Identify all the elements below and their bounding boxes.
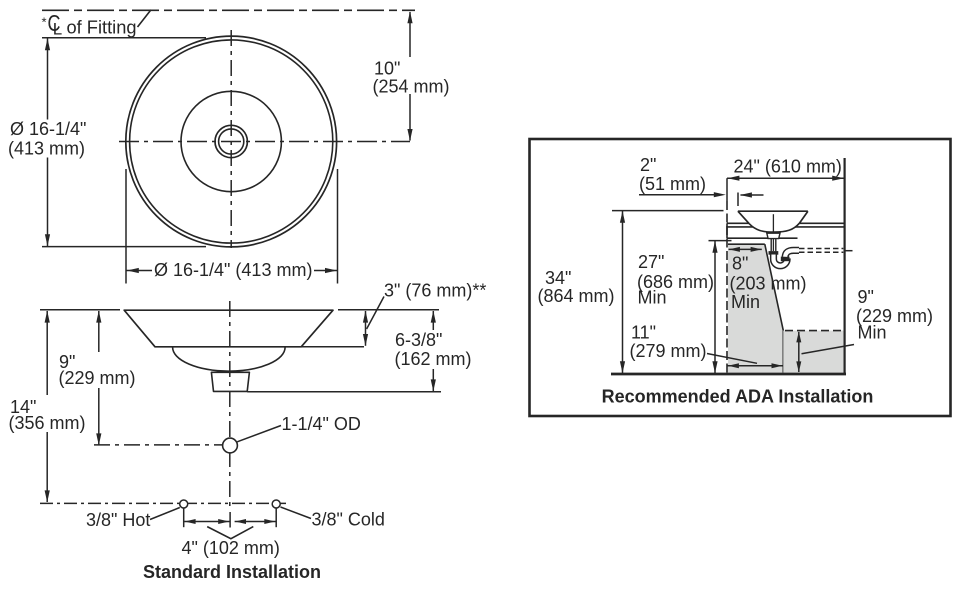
svg-text:(356 mm): (356 mm) [9,413,86,433]
horizontal centerline of top view (dash-dot) [119,141,410,143]
dimension 24" horizontal [727,176,845,181]
label CL of Fitting [42,10,137,38]
centerline of fitting (horizontal dash-dot, top) [42,9,415,11]
extension line rim top to right dims [338,309,439,311]
extension line below circle right (bottom dia dim) [337,169,339,284]
drain fitting trapezoid (ADA) [767,233,780,238]
ADA sink centerline [772,214,774,251]
2" leader underline with arrow [639,192,726,197]
svg-text:(51 mm): (51 mm) [639,174,706,194]
dimension 34" vertical [620,211,625,373]
label 6-3/8" (162 mm) [395,330,472,369]
counter underside line [727,237,798,239]
counter top line 1 [727,222,845,224]
svg-text:of Fitting: of Fitting [67,18,137,38]
horizontal dash-dot supply line row [40,502,286,504]
tailpiece pipe left edge [770,239,772,252]
leader 3/8 Cold [281,507,312,519]
svg-text:(864 mm): (864 mm) [538,286,615,306]
svg-text:3/8" Hot: 3/8" Hot [86,510,150,530]
svg-text:Standard Installation: Standard Installation [143,562,321,582]
svg-text:Min: Min [638,288,667,308]
svg-text:10": 10" [374,59,400,79]
label 14" (356 mm) [9,397,86,433]
leader slash from label to centerline [138,10,152,27]
leader 11" label [707,354,757,364]
leader 9" Min label [802,345,855,354]
shroud right edge [782,331,784,373]
svg-text:3" (76 mm)**: 3" (76 mm)** [384,281,486,301]
svg-text:34": 34" [545,268,571,288]
ADA border box [530,139,951,416]
leader for 3" label [367,297,384,330]
label 34" (864 mm) [538,268,615,306]
svg-text:(413 mm): (413 mm) [8,139,85,159]
label 11" (279 mm) [630,323,707,362]
dimension 11" horizontal [728,363,783,368]
svg-text:8": 8" [732,254,748,274]
drain outer circle (top view) [215,125,247,157]
trap elbow to horizontal [785,250,799,256]
label 9" (229 mm) Min [856,287,933,343]
sink inner rim circle [130,40,333,243]
svg-text:*: * [42,15,47,30]
dimension 9" vertical in block gap [796,331,801,372]
label 9" (229 mm) [59,352,136,388]
extension line from circle top to left dimension [42,37,206,39]
bowl arc (side view) [173,347,286,371]
drain trapezoid (side view) [211,372,249,391]
label 8" (203 mm) Min [730,254,807,313]
dimension 6-3/8 vertical with arrows [431,311,436,392]
counter top line 2 [727,226,845,228]
trap outlet nut [781,257,790,262]
cold supply circle [272,500,280,508]
pipe stub past wall [844,250,853,252]
svg-text:Recommended ADA Installation: Recommended ADA Installation [602,387,874,407]
extension line rim top to 34 dim [612,210,724,212]
drain outlet circle 1-1/4 OD [223,438,238,453]
dashed front plane line [726,201,728,373]
dashed waste pipe to wall (top edge) [799,248,843,250]
label 10" (254 mm) [373,59,450,97]
center tick for 4" dim [229,512,231,528]
svg-text:Ø 16-1/4": Ø 16-1/4" [10,119,86,139]
floor line [611,373,846,376]
extension line left of rim (9" and 14" dims) [40,309,120,311]
dashed top of lower right block [785,330,844,332]
horizontal dash-dot at drain outlet height [94,444,222,446]
drain inner circle (top view) [219,129,244,154]
extension front edge up to 24 dim [726,178,728,201]
svg-text:(279 mm): (279 mm) [630,341,707,361]
2" tick above sink [737,193,739,207]
extension line below circle left (bottom dia dim) [125,169,127,284]
svg-text:24" (610 mm): 24" (610 mm) [734,157,842,177]
dimension dia 16-1/4 left vertical with arrows [45,38,50,246]
dashed waste pipe to wall (bottom edge) [799,251,843,253]
svg-text:(254 mm): (254 mm) [373,77,450,97]
label dia 16-1/4 (413 mm) left [8,119,86,159]
leader 3/8 Hot [150,508,180,520]
tailpiece pipe right edge [775,239,777,252]
shroud slant edge [765,244,784,330]
dimension 8" horizontal [729,247,762,252]
wall line [843,158,845,373]
label 27" (686 mm) Min [637,252,714,308]
extension line rim bottom to 3" dim [301,346,364,348]
extension line below hot circle [183,509,185,528]
sink outer rim circle (top view) [126,36,337,247]
svg-text:(203 mm): (203 mm) [730,274,807,294]
svg-text:4" (102 mm): 4" (102 mm) [182,538,280,558]
extension line for 27 dim [709,240,732,242]
dimension 3" vertical with arrows [363,311,368,346]
svg-text:(229 mm): (229 mm) [59,368,136,388]
tailpiece nut [769,251,779,255]
dimension 14" vertical with arrows [45,311,50,503]
V pointer from 4" label to centerline [207,527,253,539]
svg-text:L: L [53,19,62,38]
counter front edge [726,223,728,238]
svg-text:9": 9" [858,287,874,307]
svg-text:(162 mm): (162 mm) [395,349,472,369]
dimension dia 16-1/4 bottom horizontal arrows [126,268,337,273]
grey lower right block [783,331,843,373]
dimension 10" vertical (right of circle) [407,11,412,141]
svg-text:2": 2" [640,155,656,175]
svg-text:Min: Min [858,323,887,343]
bowl circle (top view) [181,91,281,191]
label 2" (51 mm) [639,155,706,194]
vertical centerline of side view (dash-dot) [229,301,231,509]
dimension 27" vertical [712,241,717,373]
svg-text:6-3/8": 6-3/8" [395,330,442,350]
P-trap U bend [774,255,788,266]
shroud top edge [728,243,765,245]
svg-text:27": 27" [638,252,664,272]
svg-text:1-1/4" OD: 1-1/4" OD [282,414,361,434]
grey pipe shroud polygon [728,244,783,372]
svg-text:Ø 16-1/4" (413 mm): Ø 16-1/4" (413 mm) [154,260,312,280]
extension line below cold circle [275,509,277,528]
dimension 9" vertical with arrows [96,311,101,446]
svg-text:3/8" Cold: 3/8" Cold [312,510,385,530]
svg-text:Min: Min [731,292,760,312]
extension line drain bottom to 6-3/8 dim [247,391,441,393]
2" right arrow [740,192,764,197]
leader for 1-1/4 OD label [237,426,281,442]
dimension 4" right half arrows [235,519,276,524]
extension line from circle bottom to left dimension [42,246,206,248]
svg-text:11": 11" [631,323,656,343]
vertical centerline of top view (dash-dot) [230,30,232,248]
dimension 4" left half arrows [184,519,229,524]
ADA sink bowl (white over counter) [738,211,808,232]
sink rim outline (side view) [124,310,333,347]
hot supply circle [180,500,188,508]
